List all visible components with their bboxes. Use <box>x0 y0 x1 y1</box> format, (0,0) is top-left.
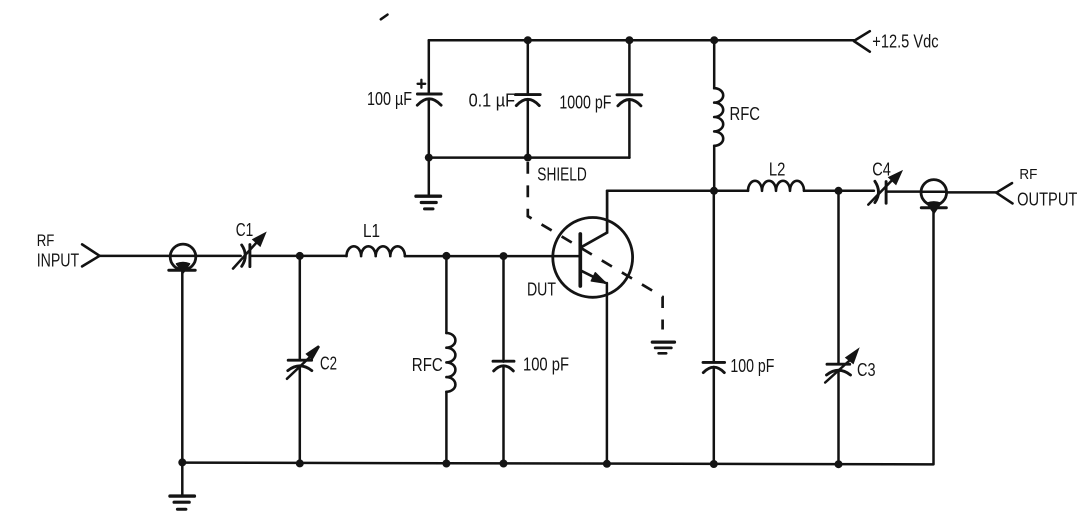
svg-text:DUT: DUT <box>527 278 556 299</box>
svg-text:0.1 µF: 0.1 µF <box>469 90 515 111</box>
svg-text:100 µF: 100 µF <box>367 88 412 109</box>
svg-text:100 pF: 100 pF <box>730 355 774 376</box>
svg-text:1000 pF: 1000 pF <box>559 92 611 113</box>
svg-text:OUTPUT: OUTPUT <box>1017 189 1077 210</box>
svg-text:L1: L1 <box>363 220 380 241</box>
svg-text:C3: C3 <box>857 359 876 380</box>
svg-text:+12.5 Vdc: +12.5 Vdc <box>872 31 938 52</box>
svg-text:C4: C4 <box>872 158 891 179</box>
svg-text:C1: C1 <box>236 219 254 240</box>
svg-text:RF: RF <box>1019 166 1037 183</box>
svg-text:100 pF: 100 pF <box>523 353 569 374</box>
svg-text:INPUT: INPUT <box>37 249 79 270</box>
svg-text:C2: C2 <box>320 353 337 374</box>
svg-text:SHIELD: SHIELD <box>537 163 587 184</box>
svg-text:RFC: RFC <box>412 354 443 375</box>
svg-text:RFC: RFC <box>730 103 761 124</box>
svg-text:L2: L2 <box>769 158 786 179</box>
svg-text:RF: RF <box>37 232 55 250</box>
